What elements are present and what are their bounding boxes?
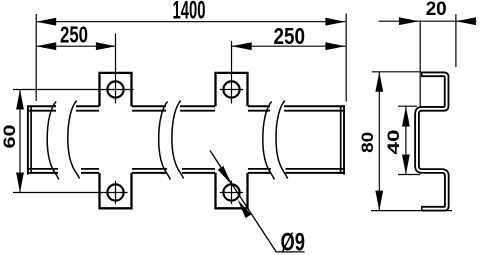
bottom tab 1 outline [100,173,132,208]
centerline vertical hole H3 [115,181,117,204]
svg-text:40: 40 [384,130,403,155]
svg-text:60: 60 [0,125,19,149]
side view profile sheet outline [417,74,447,208]
dimension 1400/250 right extension line [345,14,347,102]
dimension 1400 left arrow [36,18,56,26]
rail bottom edge (between tab 1 and break 2) [132,169,167,173]
centerline horizontal through top holes / 60 top extension [13,89,134,91]
rail bottom edge outer line (left segment) [28,169,58,173]
break line 2 right curve [172,101,184,179]
dimension 1400 right arrow [325,18,345,26]
rail bottom edge (between break 1 and tab 1) [81,169,99,173]
svg-text:250: 250 [60,21,88,47]
dimension 1400 line [36,21,345,23]
rail bottom edge (between tab 2 and break 3) [248,169,271,173]
rail top edge (between tab 2 and break 3) [248,106,270,110]
centerline horizontal hole H4 [220,192,243,194]
dimension 20 left arrow [399,17,419,25]
centerline vertical hole H1 / 250 left extension [115,33,117,103]
svg-text:Ø9: Ø9 [281,229,306,255]
dimension 40 top extension line [398,105,417,107]
hole H4 bottom-right circle [223,184,239,200]
dimension 40 line [405,107,407,175]
dimension 60 up arrow [16,90,24,110]
dimension 20 line with outside tails [379,20,477,22]
dimension 20 left extension line [419,21,421,108]
dimension 40 bottom extension line [398,174,420,176]
top tab 2 outline [216,73,248,106]
dimension 250 right right-arrow [325,42,345,50]
dimension 60 line [19,90,21,193]
leader line for hole diameter [210,150,305,252]
dimension 80 bottom extension line [371,210,452,212]
dimension 40 down arrow [402,155,410,175]
centerline horizontal hole H2 [220,89,243,91]
hole H1 top-left circle [107,81,123,97]
hole H2 top-right circle [223,81,239,97]
rail top edge (between tab 1 and break 2) [132,106,166,110]
leader upper arrow [218,166,232,185]
dimension 20 right arrow [456,17,476,25]
dimension 250 right line [232,45,346,47]
rail top edge outer line (left segment) [28,106,56,110]
svg-text:20: 20 [426,0,447,20]
svg-text:1400: 1400 [173,0,206,25]
centerline vertical hole H2 / 250 right extension [231,41,233,104]
side view profile sheet inner white core [417,74,447,208]
top tab 1 outline [100,73,132,106]
dimension 60 down arrow [16,173,24,193]
dimension 250 left left-arrow [36,42,56,50]
bottom tab 2 outline [216,173,248,208]
rail top edge (right of break 3) [284,106,345,110]
break line 2 left curve [159,102,171,180]
break line 3 left curve [263,102,275,180]
dimension 1400 left extension line [35,14,37,101]
dimension 80 top extension line [372,71,421,73]
dimension 250 left right-arrow [96,42,116,50]
dimension 20 right extension line [455,14,457,67]
break line 1 right curve [68,101,80,179]
svg-text:250: 250 [274,23,306,49]
dimension 40 up arrow [402,107,410,127]
leader lower arrow [238,200,252,219]
dimension 80 line [378,72,380,211]
dimension 250 right left-arrow [232,42,252,50]
rail right end edge [341,105,344,174]
rail top edge (between break 1 and tab 1) [76,106,99,110]
centerline vertical hole H4 [231,181,233,204]
dimension 80 up arrow [375,72,383,92]
centerline horizontal through bottom-left hole / 60 bottom extension [13,192,128,194]
rail left end edge [28,105,31,174]
dimension 250 left line [36,45,116,47]
break line 3 right curve [276,101,288,179]
rail top edge (between break 2 and tab 2) [180,106,215,110]
break line 1 left curve [47,102,59,180]
rail bottom edge (right of break 3) [286,169,345,173]
hole H3 bottom-left circle [107,184,123,200]
dimension 80 down arrow [375,191,383,211]
svg-text:80: 80 [358,132,377,153]
rail bottom edge (between break 2 and tab 2) [182,169,215,173]
